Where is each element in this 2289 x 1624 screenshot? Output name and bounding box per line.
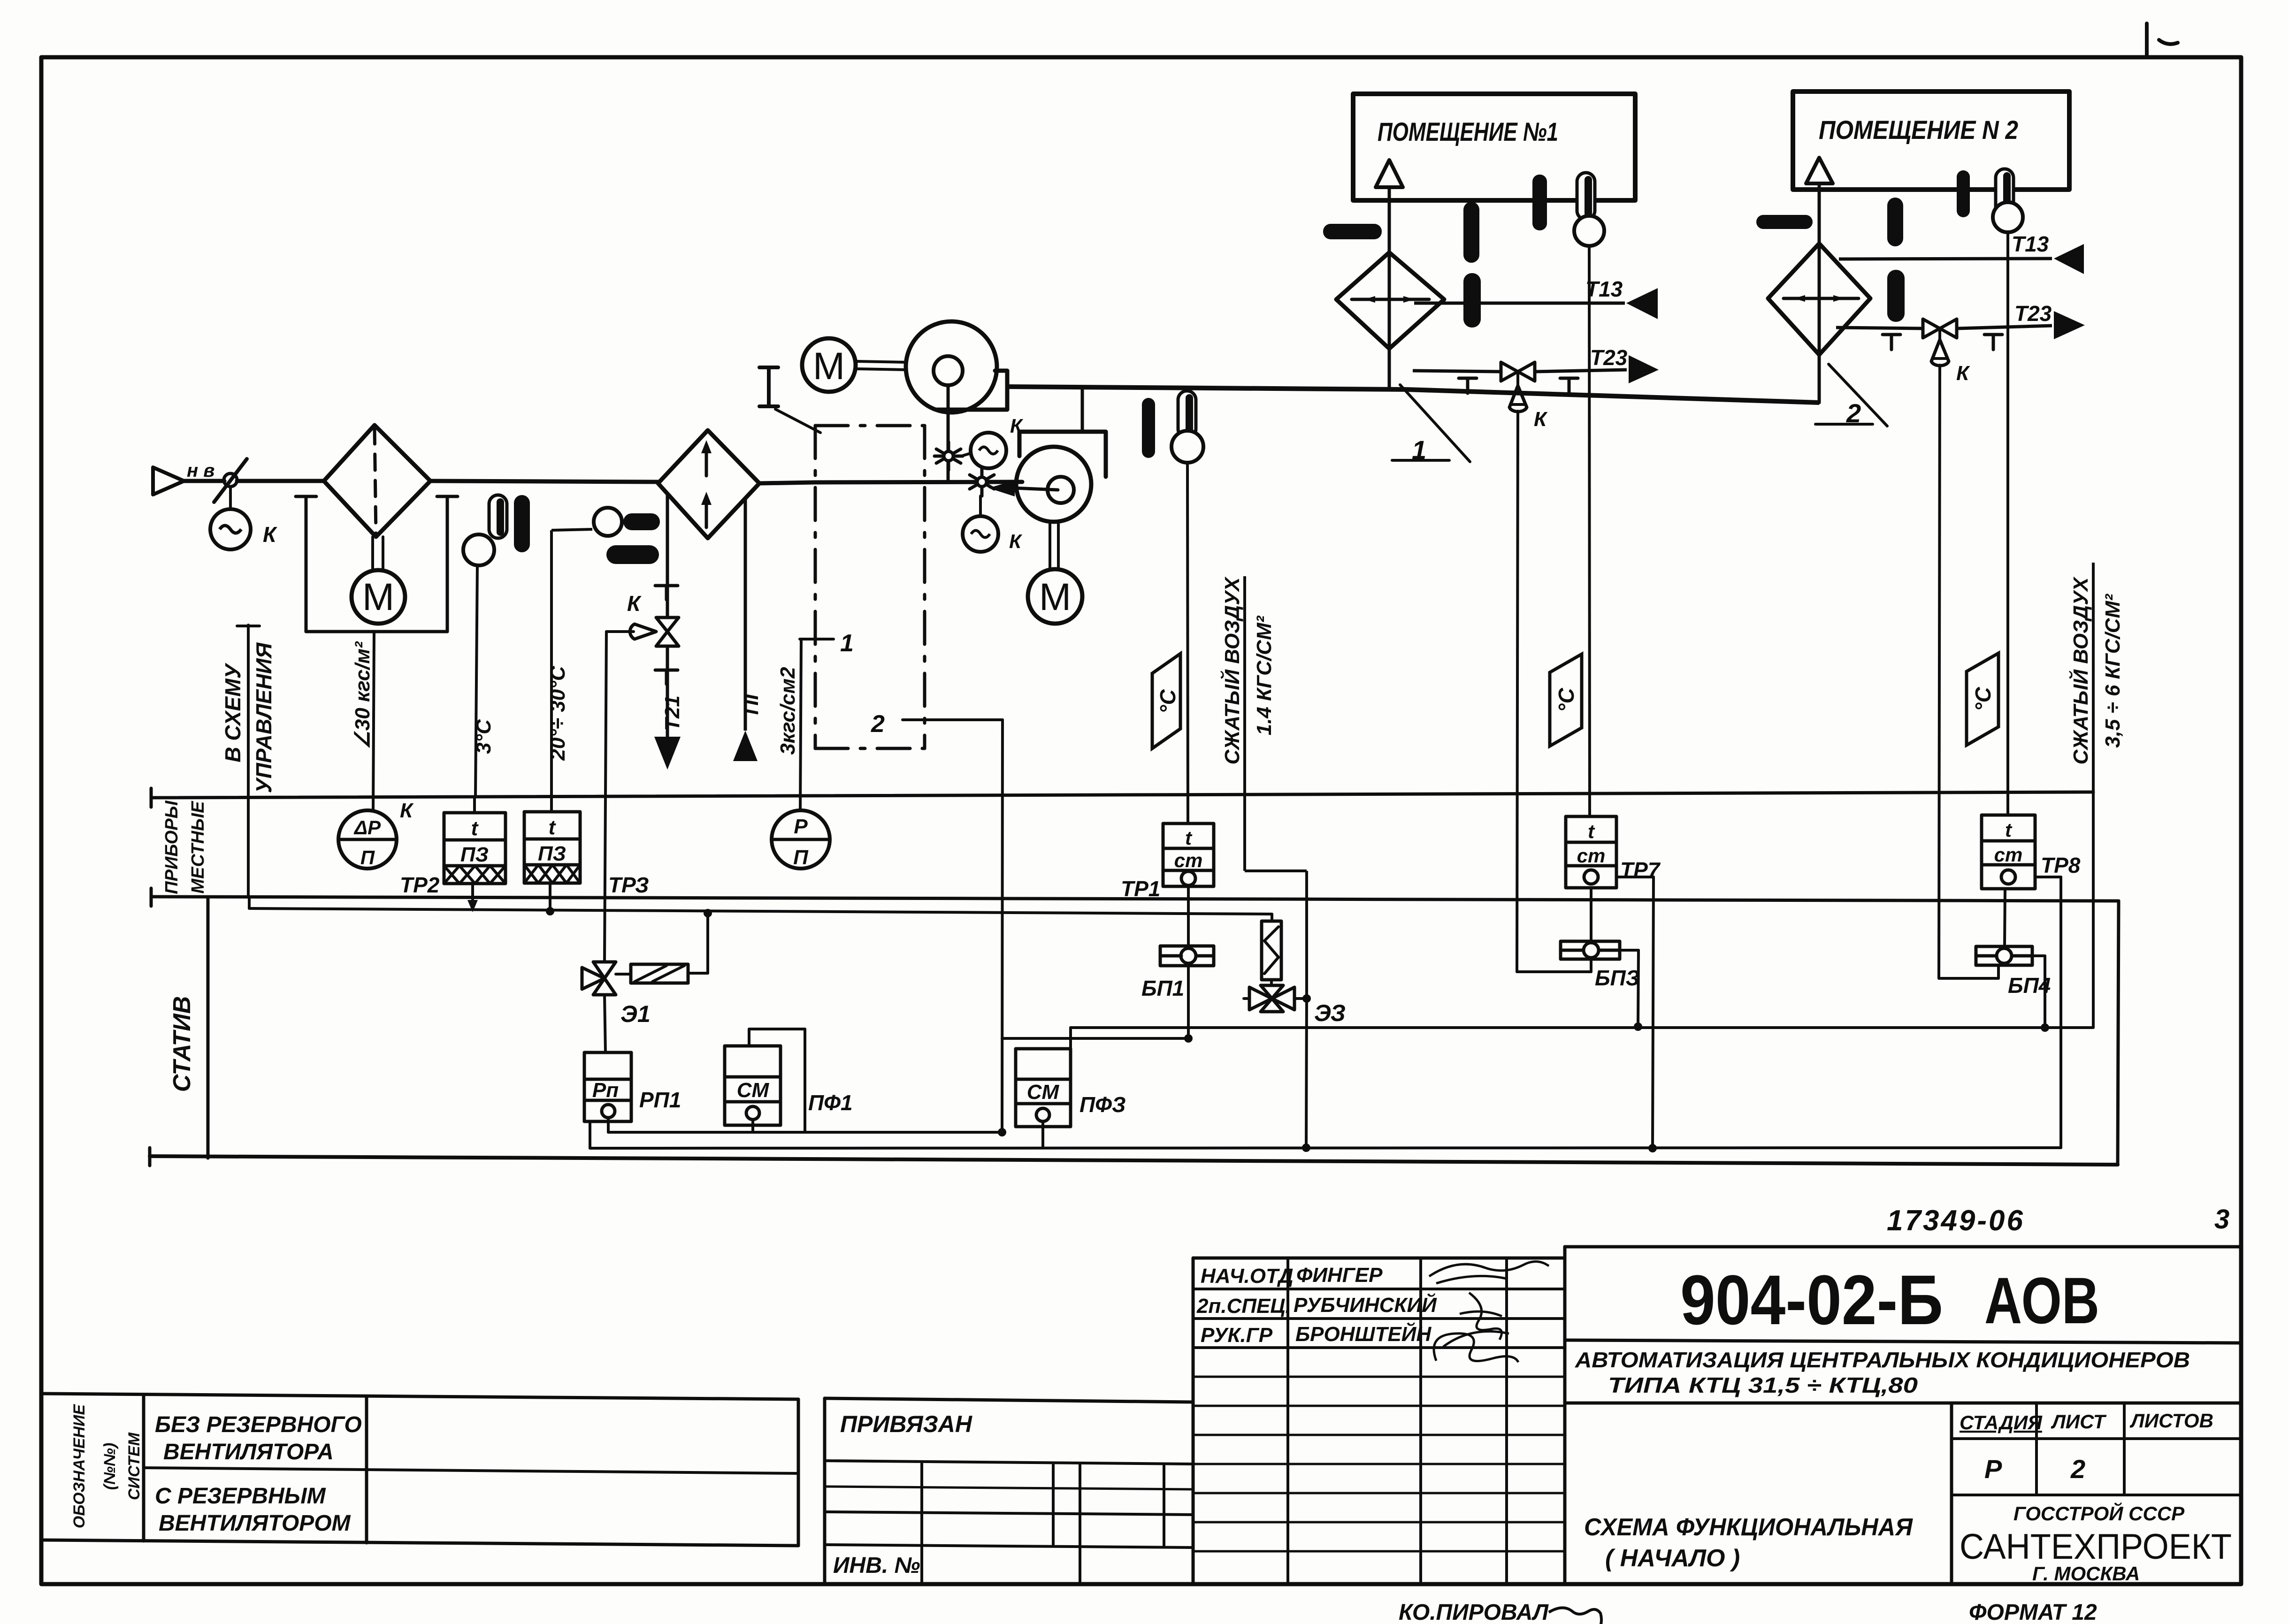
svg-text:РП1: РП1 [639,1088,681,1112]
svg-text:Г. МОСКВА: Г. МОСКВА [2032,1563,2140,1585]
fan2 discharge riser [1081,388,1084,432]
svg-text:СИСТЕМ: СИСТЕМ [125,1432,143,1500]
svg-text:Рп: Рп [592,1079,619,1102]
room 1 box [1353,94,1635,200]
solenoid K circle fan1 [971,433,1006,468]
duct chamber to return fan [815,482,1022,482]
svg-text:(№№): (№№) [101,1443,119,1490]
°C parallelogram sensor ТР8 [1967,653,1998,745]
leader to chamber [775,409,820,433]
pressure tap line to АР/П [373,632,374,810]
svg-text:ТРЗ: ТРЗ [608,873,649,897]
svg-text:МЕСТНЫЕ: МЕСТНЫЕ [188,801,208,894]
intake damper circle [224,473,237,487]
svg-text:ПЗ: ПЗ [460,843,489,866]
svg-text:2п.СПЕЦ.: 2п.СПЕЦ. [1196,1295,1291,1318]
T21 flange mark upper [655,584,678,587]
svg-text:н в: н в [187,460,214,481]
svg-text:ЛИСТОВ: ЛИСТОВ [2129,1410,2213,1432]
room2 valve K control line [1939,365,1940,978]
room2 supply triangle [1806,158,1833,183]
svg-text:К: К [1009,530,1023,552]
svg-text:1: 1 [1412,435,1426,465]
valve Э1 [593,962,616,978]
compressed air 1,4 line [1243,576,1246,871]
svg-text:РУК.ГР: РУК.ГР [1201,1324,1273,1347]
fan1 inner circle [934,356,963,385]
room1 thermometer line to ТР7 [1589,246,1590,816]
top-right curl mark [2159,40,2178,44]
svg-text:СТАДИЯ: СТАДИЯ [1960,1411,2043,1433]
fan2 motor M [1028,569,1082,624]
svg-text:3кгс/см2: 3кгс/см2 [776,667,799,755]
room2 thermometer capsule h [1756,215,1813,229]
svg-text:3,5 ÷ 6 КГС/СМ²: 3,5 ÷ 6 КГС/СМ² [2101,594,2124,748]
instrument t/ст box ТР8 [1982,815,2061,1148]
СМ2 bottom drop [1041,1121,1044,1148]
svg-text:ТР7: ТР7 [1620,858,1661,882]
wire duct from intake [184,479,224,483]
damper motor bracket bottom [306,630,447,633]
room2 T23 flange marks [1883,333,1900,336]
svg-text:ПОМЕЩЕНИЕ №1: ПОМЕЩЕНИЕ №1 [1378,117,1558,146]
ТР8 to БП4 link [2005,889,2005,946]
svg-text:ст: ст [1577,845,1606,867]
damper motor shaft [371,537,374,571]
svg-text:1.4 КГС/СМ²: 1.4 КГС/СМ² [1253,615,1276,735]
ПФ1 top loop wire [748,1029,750,1046]
intake damper slash [214,459,247,502]
main supply duct to rooms [1006,387,1406,389]
svg-text:БП1: БП1 [1141,976,1184,1000]
damper motor bracket right tee [437,495,458,498]
control line в схему управления [247,625,250,897]
svg-text:БРОНШТЕЙН: БРОНШТЕЙН [1295,1322,1432,1346]
room1 thermometer capsule v1 [1463,202,1479,263]
T21 hot water pipe [666,495,669,618]
svg-text:ГОССТРОЙ СССР: ГОССТРОЙ СССР [2013,1502,2185,1525]
svg-text:ПЗ: ПЗ [538,842,566,865]
band left divider [207,897,210,1158]
room2 flag 2 [1829,364,1887,426]
svg-text:ФИНГЕР: ФИНГЕР [1296,1264,1383,1287]
svg-text:АВТОМАТИЗАЦИЯ ЦЕНТРАЛЬНЫХ К: АВТОМАТИЗАЦИЯ ЦЕНТРАЛЬНЫХ КОНДИЦИОНЕРОВ [1575,1348,2190,1372]
svg-text:БП4: БП4 [2008,973,2051,998]
signature squiggles [1429,1261,1549,1283]
СМ2 top to air wire W1 [1069,1028,1072,1049]
damper motor bracket left tee [296,495,316,498]
fan1 inlet damper asterisk [947,442,950,470]
room2 exhaust diamond [1768,244,1870,355]
svg-text:К: К [400,799,414,822]
rotated header: обозначение (№№) систем [70,1404,143,1529]
sensor line 20-30°C [550,530,553,812]
svg-text:Т21: Т21 [661,695,684,731]
room2 thermometer with bulb [1993,169,2023,232]
instrument t/ПЗ box1 ТР2 [444,798,505,901]
instrument band bottom line [151,897,2119,901]
svg-text:СЖАТЫЙ ВОЗДУХ: СЖАТЫЙ ВОЗДУХ [1220,576,1244,764]
instrument АР/П [338,799,414,869]
room1 T23 line [1413,371,1501,372]
svg-text:М: М [1039,576,1071,618]
fan2 suction arrow line [1014,488,1058,490]
room2 T23 line [1836,328,1923,328]
valve Э3 with positioner [1244,914,1307,1148]
svg-text:ФОРМАТ 12: ФОРМАТ 12 [1969,1600,2097,1624]
svg-text:НАЧ.ОТД: НАЧ.ОТД [1201,1265,1294,1288]
supply fan motor M1 [802,338,856,392]
signature table [1193,1257,1565,1260]
spray chamber dash-dot box [815,424,925,427]
room2 T23 valve [1923,319,1940,338]
instrument Р/П [772,810,830,869]
black capsule after damper [514,495,530,552]
svg-text:ТР8: ТР8 [2041,853,2081,877]
svg-text:∠30 кгс/м²: ∠30 кгс/м² [351,641,374,749]
privyazan table [825,1398,1193,1402]
room1 thermometer capsule v3 [1463,273,1481,328]
air damper diamond [324,425,430,537]
tap 2 line [903,718,1003,721]
svg-text:ТИПА КТЦ 31,5 ÷ КТЦ,80: ТИПА КТЦ 31,5 ÷ КТЦ,80 [1608,1373,1918,1397]
svg-text:t: t [1588,820,1595,842]
svg-text:ВЕНТИЛЯТОРА: ВЕНТИЛЯТОРА [163,1440,334,1464]
block БП4 [1939,946,2045,1028]
Э1 flow element [631,964,688,983]
svg-text:Р: Р [794,815,808,838]
room2 thermometer capsule v1 [1887,198,1903,246]
section mark I [759,366,778,369]
svg-text:ТР2: ТР2 [400,873,440,897]
outdoor air intake triangle [153,467,184,495]
actuator control line [606,630,634,633]
solenoid K circle (intake) [210,509,251,549]
thermometer after heater [594,508,660,536]
T21 flange mark lower [655,669,678,672]
stativ bus line [249,908,1272,914]
tap 1 line [800,638,834,640]
svg-text:УПРАВЛЕНИЯ: УПРАВЛЕНИЯ [252,642,276,793]
room1 exhaust riser lower [1388,349,1391,389]
T11 return pipe [744,499,747,731]
room1 thermometer capsule h [1323,224,1382,239]
link damper2 to solenoid K2 [979,496,982,516]
room1 thermometer with bulb [1574,173,1604,246]
svg-text:2: 2 [1846,398,1861,428]
svg-text:ст: ст [1994,844,2023,866]
room2 riser lower [1818,355,1821,403]
svg-text:Э1: Э1 [620,1001,651,1027]
instrument band top line [151,792,2093,798]
main duct damper to heater [430,481,658,482]
right title block [1565,1245,2241,1249]
svg-text:ЭЗ: ЭЗ [1314,1000,1346,1026]
duct inline damper asterisk2 [980,468,984,496]
ТР1 sensor line down [1187,463,1188,823]
svg-text:К: К [627,591,642,616]
svg-text:t: t [549,816,557,839]
svg-text:С РЕЗЕРВНЫМ: С РЕЗЕРВНЫМ [155,1484,326,1509]
left bottom table (system designation) [41,1394,798,1399]
svg-text:П: П [360,846,375,869]
valve K1 control line down to Э1 [605,632,606,962]
wire duct to main damper [237,479,324,483]
heater valve K bowtie [656,618,679,632]
heater arrows [705,445,708,476]
°C parallelogram sensor ТР7 [1550,654,1582,746]
svg-text:ИНВ. №: ИНВ. № [833,1553,920,1578]
svg-text:Т23: Т23 [1590,345,1628,370]
room1 T13 line [1414,302,1625,305]
fan2 casing [1016,447,1091,522]
instrument t/ПЗ box2 ТРЗ [524,812,580,911]
sensor line 3°C [475,565,477,798]
fan2 inner circle [1048,477,1074,503]
duct thermometer with bulb [1171,391,1203,463]
svg-text:ст: ст [1174,849,1203,871]
svg-text:БПЗ: БПЗ [1595,966,1639,990]
valve actuator cone [630,624,656,639]
svg-text:ТII: ТII [740,694,763,718]
svg-text:КО.ПИРОВАЛ: КО.ПИРОВАЛ [1399,1600,1549,1624]
svg-text:ЛИСТ: ЛИСТ [2051,1411,2107,1433]
black capsule after heater [606,545,659,564]
svg-text:Р: Р [1984,1454,2002,1484]
svg-text:СЖАТЫЙ ВОЗДУХ: СЖАТЫЙ ВОЗДУХ [2068,576,2092,764]
band right end drop [2118,901,2119,1165]
fan1 shaft [856,361,906,362]
svg-text:СМ: СМ [737,1079,770,1102]
svg-text:М: М [813,345,845,388]
svg-text:М: М [362,576,394,618]
svg-text:Т13: Т13 [2012,232,2049,256]
2-line through band down [1002,720,1003,1132]
svg-text:°С: °С [1971,686,1995,711]
svg-text:ПФЗ: ПФЗ [1079,1092,1126,1117]
svg-text:ТР1: ТР1 [1121,877,1160,901]
svg-text:РУБЧИНСКИЙ: РУБЧИНСКИЙ [1294,1293,1437,1317]
room1 valve K control line [1517,411,1518,972]
duct heater to chamber [759,482,815,483]
wire РП-СМ run W3 [607,1118,610,1132]
fan1 suction line [947,385,950,481]
svg-text:ОБОЗНАЧЕНИЕ: ОБОЗНАЧЕНИЕ [70,1404,88,1529]
svg-text:АОВ: АОВ [1984,1264,2099,1337]
room1 flag 1 [1400,385,1470,462]
svg-text:3°С: 3°С [472,719,495,754]
svg-text:t: t [1185,827,1193,849]
heater diamond [658,430,759,538]
ТР7 to БПЗ link [1590,888,1592,941]
supply fan1 casing [906,321,997,412]
svg-text:2: 2 [2070,1454,2085,1484]
svg-text:ΔР: ΔР [353,816,381,839]
svg-text:t: t [2005,819,2013,841]
svg-text:САНТЕХПРОЕКТ: САНТЕХПРОЕКТ [1960,1527,2232,1567]
svg-text:К: К [1956,362,1970,385]
link to solenoid K1 [961,453,971,456]
svg-text:БЕЗ РЕЗЕРВНОГО: БЕЗ РЕЗЕРВНОГО [155,1412,362,1437]
regulator РП box РП1 [584,1052,631,1121]
svg-text:( НАЧАЛО ): ( НАЧАЛО ) [1605,1545,1740,1572]
svg-text:°С: °С [1554,687,1578,712]
link damper to solenoid [229,488,232,510]
room1 exhaust diamond [1336,252,1444,349]
Э1 to РП [605,995,605,1052]
stativ bottom rail [150,1156,2118,1165]
compressed air 3,5-6 line [2092,563,2095,1028]
room1 T23 flange marks [1459,377,1477,380]
svg-text:П: П [793,846,809,869]
svg-text:904-02-Б: 904-02-Б [1680,1260,1943,1339]
room1 T23 valve [1501,362,1518,381]
thermometer after damper [463,495,507,565]
svg-text:2: 2 [871,710,885,738]
svg-text:t: t [471,817,479,840]
room2 thermometer capsule v2 [1957,170,1970,217]
svg-text:1: 1 [840,630,854,657]
motor M of damper [352,570,405,624]
fan2 shaft [1049,522,1051,569]
svg-text:Т13: Т13 [1585,277,1623,301]
room1 supply triangle [1376,160,1403,187]
room 2 box [1793,91,2069,190]
svg-text:20°÷ 30°С: 20°÷ 30°С [546,665,569,761]
duct black thermometer capsule [1142,398,1155,458]
T21 arrow down [654,737,681,770]
svg-text:ВЕНТИЛЯТОРОМ: ВЕНТИЛЯТОРОМ [159,1511,351,1536]
room2 riser upper [1818,186,1821,244]
room2 thermometer capsule v3 [1887,270,1905,322]
svg-text:К: К [263,522,277,547]
svg-text:СМ: СМ [1027,1081,1060,1104]
svg-text:3: 3 [2214,1204,2229,1235]
svg-text:СХЕМА ФУНКЦИОНАЛЬНАЯ: СХЕМА ФУНКЦИОНАЛЬНАЯ [1584,1514,1913,1541]
svg-text:Т23: Т23 [2014,301,2052,326]
svg-text:17349-06: 17349-06 [1887,1205,2025,1237]
block СМ box ПФ1 [725,1046,781,1125]
svg-text:°С: °С [1156,689,1180,713]
svg-text:ПРИБОРЫ: ПРИБОРЫ [162,800,182,894]
room1 thermometer capsule v2 [1532,175,1547,230]
block БПЗ [1517,941,1638,1026]
block СМ box ПФЗ [1016,1049,1071,1127]
svg-text:ПРИВЯЗАН: ПРИВЯЗАН [840,1411,972,1437]
room2 thermometer line to ТР8 [2006,232,2009,815]
room2 T13 line [1839,259,2052,259]
°C parallelogram sensor ТР1 [1152,654,1180,748]
svg-text:ПОМЕЩЕНИЕ N 2: ПОМЕЩЕНИЕ N 2 [1819,115,2018,145]
svg-text:В СХЕМУ: В СХЕМУ [221,662,245,762]
block БП1 [1002,946,1214,1038]
wire W2 long run [589,1121,591,1148]
svg-text:К: К [1534,408,1548,431]
svg-text:ПФ1: ПФ1 [808,1090,853,1115]
svg-text:СТАТИВ: СТАТИВ [168,996,196,1092]
top-right corner tick [2145,23,2149,57]
instrument t/ст box ТР1 [1163,823,1214,946]
solenoid K circle fan2 [963,516,998,552]
room1 riser upper [1388,188,1391,252]
instrument t/ст box ТР7 [1566,816,1654,1148]
